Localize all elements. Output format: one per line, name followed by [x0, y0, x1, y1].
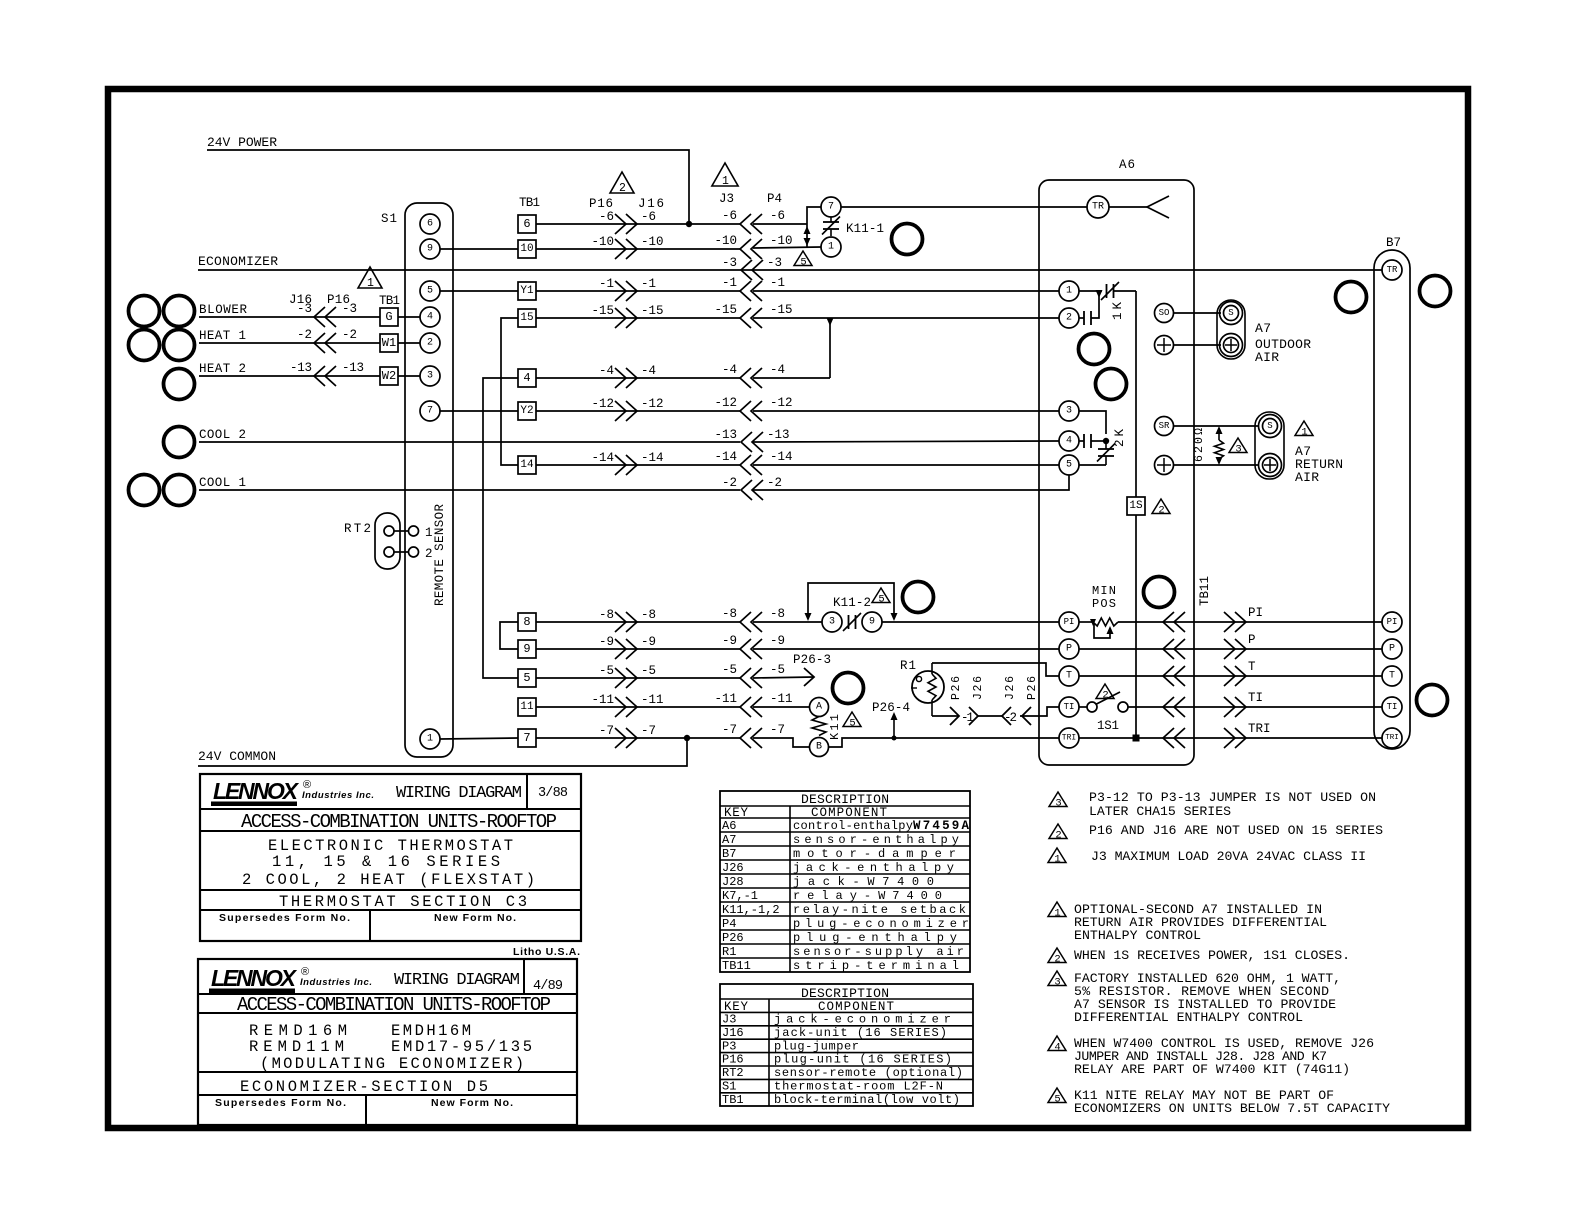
svg-text:-15: -15 — [770, 303, 793, 317]
svg-text:3: 3 — [1055, 798, 1061, 810]
svg-text:-5: -5 — [770, 663, 785, 677]
svg-text:P3: P3 — [722, 1039, 736, 1053]
terminal B7-TR — [1382, 260, 1402, 280]
svg-text:2: 2 — [1102, 690, 1108, 702]
svg-text:K11,-1,2: K11,-1,2 — [722, 903, 780, 917]
svg-text:-8: -8 — [599, 608, 614, 622]
connector J3-4/P4-4 chevron — [740, 368, 762, 388]
terminal TB1-5 — [518, 669, 536, 687]
svg-text:-5: -5 — [641, 664, 656, 678]
wire -2 to A6-5 drop — [753, 475, 1069, 490]
wire SO to A7 outdoor S — [1174, 312, 1222, 314]
damper actuator arrow — [1147, 196, 1169, 218]
wire TRI to TB11 — [1079, 737, 1163, 739]
svg-text:-5: -5 — [722, 663, 737, 677]
terminal TB1-W2 — [380, 367, 398, 385]
connector P26-3 arrow — [804, 668, 814, 686]
wire A6-3 to 2K — [1079, 411, 1106, 434]
terminal TB1-6 — [518, 215, 536, 233]
wire-nut circles HEAT 1 — [129, 330, 160, 361]
svg-text:-1: -1 — [722, 276, 737, 290]
contact K11-1 terminal 1 — [821, 237, 841, 257]
sensor A7 return outline — [1255, 412, 1284, 479]
note triangle 2 (1S1) — [1096, 684, 1114, 699]
wire -7 to K11 coil B — [753, 738, 810, 747]
RT2 pin 1 circle — [384, 526, 394, 536]
note triangle 4 — [1048, 1036, 1066, 1051]
svg-text:P26-3: P26-3 — [793, 653, 831, 667]
svg-text:ENTHALPY CONTROL: ENTHALPY CONTROL — [1074, 928, 1201, 943]
svg-text:A: A — [816, 702, 822, 713]
title block 2 row lines — [198, 993, 577, 995]
svg-text:1: 1 — [1301, 427, 1307, 439]
svg-text:-1: -1 — [599, 277, 614, 291]
svg-text:sensor-enthalpy: sensor-enthalpy — [793, 833, 959, 847]
svg-text:-13: -13 — [715, 428, 738, 442]
wire -9 to A6 P — [753, 648, 1059, 650]
svg-text:J16: J16 — [638, 197, 664, 211]
svg-text:4: 4 — [1066, 436, 1072, 447]
svg-text:-13: -13 — [767, 428, 790, 442]
terminal A6-3 — [1059, 401, 1079, 421]
relay coil K11 winding — [812, 717, 826, 736]
connector J16-3/P16-3 chevron — [314, 307, 336, 327]
sensor R1 element — [928, 674, 936, 700]
svg-text:COOL 2: COOL 2 — [199, 428, 246, 442]
svg-text:-15: -15 — [592, 304, 615, 318]
svg-text:ACCESS-COMBINATION UNITS-ROOFT: ACCESS-COMBINATION UNITS-ROOFTOP — [237, 994, 551, 1016]
svg-text:3: 3 — [1054, 977, 1060, 989]
wire TB1 to P16-5 — [536, 677, 740, 679]
svg-text:T: T — [1066, 671, 1072, 682]
terminal TB1-9 — [518, 640, 536, 658]
svg-text:B: B — [816, 742, 822, 753]
A7 return plus terminal — [1259, 454, 1282, 477]
svg-text:TI: TI — [1248, 691, 1263, 705]
potentiometer MIN POS — [1079, 621, 1093, 623]
svg-text:Supersedes Form No.: Supersedes Form No. — [215, 1097, 346, 1109]
svg-text:J3: J3 — [722, 1013, 736, 1027]
svg-text:-10: -10 — [715, 234, 738, 248]
wire TB1 to P16-10 — [536, 248, 740, 250]
svg-text:6: 6 — [523, 217, 530, 231]
svg-text:plug-unit (16 SERIES): plug-unit (16 SERIES) — [774, 1053, 952, 1067]
RT2 wire 2 — [394, 551, 409, 553]
sensor A7 outdoor outline — [1217, 300, 1245, 359]
svg-text:-15: -15 — [641, 304, 664, 318]
contact on A6-2 — [1079, 317, 1084, 319]
motor B7 outline — [1374, 250, 1410, 749]
note triangle 5 (K11 coil) — [843, 712, 861, 727]
junction arrow -15/-4 — [827, 318, 834, 326]
svg-text:thermostat-room L2F-N: thermostat-room L2F-N — [774, 1080, 943, 1094]
wire TB1 to P16-1 — [536, 290, 740, 292]
wire R1 top to A6 T — [932, 663, 1059, 676]
svg-text:5: 5 — [523, 671, 530, 685]
svg-text:-12: -12 — [770, 396, 793, 410]
svg-text:9: 9 — [427, 244, 433, 255]
control A6 outline — [1039, 180, 1194, 765]
grommet circle above TB11 chevrons — [1144, 577, 1175, 608]
svg-text:(MODULATING ECONOMIZER): (MODULATING ECONOMIZER) — [260, 1055, 524, 1073]
svg-text:24V POWER: 24V POWER — [207, 135, 277, 150]
grommet circle right of B7 bottom — [1417, 685, 1448, 716]
svg-text:R1: R1 — [722, 945, 736, 959]
connector J26-2 chevron pair — [1002, 707, 1031, 725]
wire TB1 to P16-14 — [536, 464, 740, 466]
terminal S1-5 — [420, 281, 440, 301]
wire A6-4 to junction — [1091, 440, 1106, 442]
wire -14 to A6-5 — [753, 464, 1059, 466]
svg-text:P16: P16 — [589, 197, 613, 211]
wire-nut circle COOL 2 — [164, 427, 195, 458]
terminal A6-SR — [1155, 417, 1174, 436]
wire TB1 to P16-4 — [536, 377, 740, 379]
wire ECONOMIZER / -3 row — [198, 269, 1382, 271]
terminal TB1-7 — [518, 729, 536, 747]
svg-text:S: S — [1267, 421, 1272, 431]
K11-1 common riser — [807, 207, 821, 248]
svg-text:P26: P26 — [1026, 676, 1039, 700]
terminal A6-PI — [1059, 612, 1079, 632]
svg-text:2 COOL, 2 HEAT (FLEXSTAT): 2 COOL, 2 HEAT (FLEXSTAT) — [242, 871, 535, 889]
note triangle 3b — [1048, 971, 1066, 986]
wire TB11 TRI segment — [1163, 737, 1248, 739]
connector J3-14/P4-14 chevron — [740, 455, 762, 475]
terminal TB1-11 — [518, 698, 536, 716]
svg-text:plug-jumper: plug-jumper — [774, 1039, 859, 1053]
svg-text:5: 5 — [1054, 1094, 1060, 1106]
contact 2K NC — [1105, 441, 1107, 449]
connector J3-8/P4-8 chevron — [740, 612, 762, 632]
svg-text:-11: -11 — [770, 692, 793, 706]
table 1 grid — [720, 805, 970, 807]
svg-text:14: 14 — [520, 459, 534, 471]
connector J3-1/P4-1 chevron — [740, 281, 762, 301]
wire S1-9 to TB1-10 — [440, 248, 518, 250]
terminal A6-P — [1059, 639, 1079, 659]
wire TB1 to P16-11 — [536, 706, 740, 708]
connector TB11 TRI left chevron — [1163, 728, 1185, 748]
wire -11 to K11 coil A — [753, 706, 809, 708]
connector P16-11/J16-11 chevron — [615, 697, 637, 717]
terminal A6-5 — [1059, 455, 1079, 475]
svg-text:-10: -10 — [592, 235, 615, 249]
svg-text:7: 7 — [828, 202, 834, 213]
svg-text:-8: -8 — [722, 607, 737, 621]
svg-text:HEAT 2: HEAT 2 — [199, 362, 246, 376]
terminal A6-plus-R — [1155, 456, 1174, 475]
svg-text:-8: -8 — [641, 608, 656, 622]
junction dot 2K — [1103, 438, 1109, 444]
svg-text:W1: W1 — [382, 336, 396, 350]
svg-text:THERMOSTAT SECTION C3: THERMOSTAT SECTION C3 — [279, 893, 527, 911]
svg-text:HEAT 1: HEAT 1 — [199, 329, 246, 343]
svg-text:COMPONENT: COMPONENT — [811, 806, 887, 820]
wire PI to B7 — [1248, 621, 1382, 623]
svg-text:K7,-1: K7,-1 — [722, 889, 758, 903]
svg-text:-6: -6 — [722, 209, 737, 223]
connector P16-14/J16-14 chevron — [615, 455, 637, 475]
svg-text:TI: TI — [1387, 702, 1398, 712]
svg-text:1: 1 — [722, 175, 729, 188]
RT2 pin 2 circle — [384, 547, 394, 557]
connector P16-5/J16-5 chevron — [615, 668, 637, 688]
wire -10 to K11-1 NC — [753, 247, 821, 248]
svg-text:TB11: TB11 — [1198, 576, 1212, 606]
A7 outdoor plus terminal — [1220, 334, 1243, 357]
svg-text:-3: -3 — [297, 302, 312, 316]
svg-text:-8: -8 — [770, 607, 785, 621]
wire 2K to A6-5 — [1079, 464, 1106, 466]
svg-text:5: 5 — [1066, 460, 1072, 471]
wire TB1-W2 to S1-3 — [398, 375, 420, 377]
terminal TB1-10 — [518, 240, 536, 258]
terminal S1-2 — [420, 333, 440, 353]
connector J3-11/P4-11 chevron — [740, 697, 762, 717]
svg-text:-7: -7 — [599, 724, 614, 738]
svg-text:MIN: MIN — [1092, 584, 1116, 598]
svg-text:1: 1 — [828, 242, 834, 253]
note triangle 2 (text) — [1049, 824, 1067, 839]
svg-text:New Form No.: New Form No. — [434, 912, 516, 924]
svg-text:3/88: 3/88 — [538, 786, 568, 801]
svg-text:J3 MAXIMUM LOAD 20VA 24VAC CLA: J3 MAXIMUM LOAD 20VA 24VAC CLASS II — [1091, 849, 1366, 864]
sensor R1 temp symbol — [916, 676, 921, 681]
svg-text:TRI: TRI — [1248, 722, 1271, 736]
svg-text:3: 3 — [829, 617, 835, 628]
connector P16-8/J16-8 chevron — [615, 612, 637, 632]
sensor RT2 outline — [375, 513, 400, 569]
potentiometer wiper — [1094, 624, 1110, 638]
connector TB11 T left chevron — [1163, 666, 1185, 686]
wire J26-2 to A6 TI — [1020, 707, 1059, 716]
wire TB1 to P16-9 — [536, 648, 740, 650]
wire-nut circle HEAT 2 — [164, 369, 195, 400]
svg-text:A7: A7 — [1255, 321, 1271, 336]
wire K11-1 to A6 TR — [841, 206, 1087, 208]
wire 1S riser lower — [1135, 515, 1137, 738]
svg-text:-12: -12 — [641, 397, 664, 411]
table 2 outline — [720, 984, 973, 1106]
wire -6 to K11-1 common — [753, 223, 807, 225]
svg-text:-2: -2 — [767, 476, 782, 490]
connector TB11 P right chevron — [1224, 639, 1246, 659]
svg-text:-9: -9 — [599, 635, 614, 649]
note triangle 1b — [1048, 902, 1066, 917]
svg-text:LENNOX: LENNOX — [211, 965, 298, 991]
connector P16-6/J16-6 chevron — [615, 214, 637, 234]
wire TB1-G to S1-4 — [398, 316, 420, 318]
wire TRI to B7 — [1248, 737, 1382, 739]
svg-text:P16 AND J16 ARE NOT USED ON 15: P16 AND J16 ARE NOT USED ON 15 SERIES — [1089, 823, 1383, 838]
table 1 outline — [720, 791, 970, 972]
svg-text:P26: P26 — [950, 676, 963, 700]
svg-text:B7: B7 — [722, 847, 736, 861]
wire-nut circles BLOWER — [129, 296, 160, 327]
svg-text:ECONOMIZERS ON UNITS BELOW 7.5: ECONOMIZERS ON UNITS BELOW 7.5T CAPACITY — [1074, 1101, 1390, 1116]
wire -12 to A6-3 — [753, 410, 1059, 412]
svg-text:TB1: TB1 — [519, 196, 540, 210]
svg-text:G: G — [385, 310, 392, 324]
svg-text:-2: -2 — [1004, 711, 1017, 725]
connector P26-4 arrow — [893, 716, 895, 738]
contact 1K NC — [1106, 284, 1108, 298]
note triangle 1 (J16/P16) — [358, 267, 382, 288]
svg-text:5: 5 — [427, 286, 433, 297]
svg-text:-14: -14 — [641, 451, 664, 465]
svg-text:RT2: RT2 — [722, 1066, 744, 1080]
svg-text:-3: -3 — [342, 302, 357, 316]
A7 outdoor S terminal — [1220, 302, 1243, 325]
svg-text:4: 4 — [523, 371, 530, 385]
terminal A6-SO — [1155, 304, 1174, 323]
wire TB1-W1 to S1-2 — [398, 342, 420, 344]
relay coil K11 terminal A — [810, 698, 829, 717]
grommet circle near K11-1 — [892, 224, 923, 255]
wire TB11 TI segment — [1163, 706, 1248, 708]
connector TB11 T right chevron — [1224, 666, 1246, 686]
svg-text:AIR: AIR — [1255, 350, 1279, 365]
svg-text:P4: P4 — [722, 917, 736, 931]
terminal S1-3 — [420, 366, 440, 386]
terminal S1-1 — [420, 729, 440, 749]
svg-text:A6: A6 — [1119, 158, 1135, 172]
svg-text:Supersedes Form No.: Supersedes Form No. — [219, 912, 350, 924]
svg-text:TB1: TB1 — [722, 1093, 744, 1107]
wire TI to B7 — [1248, 706, 1382, 708]
svg-text:-11: -11 — [715, 692, 738, 706]
svg-text:DESCRIPTION: DESCRIPTION — [801, 792, 889, 807]
svg-text:-12: -12 — [592, 397, 615, 411]
svg-text:15: 15 — [520, 312, 533, 324]
svg-text:4/89: 4/89 — [533, 979, 563, 994]
svg-text:8: 8 — [523, 615, 530, 629]
svg-text:S1: S1 — [722, 1080, 736, 1094]
svg-text:-9: -9 — [641, 635, 656, 649]
note triangle 2b — [1048, 948, 1066, 963]
terminal TB1-14 — [518, 456, 536, 474]
svg-text:K11-2: K11-2 — [833, 596, 871, 610]
K11-1 travel arrow up — [804, 226, 811, 234]
svg-text:-3: -3 — [767, 256, 782, 270]
terminal B7-TI — [1382, 697, 1402, 717]
svg-text:sensor-supply air: sensor-supply air — [793, 945, 964, 959]
wire A6-1 to 1K — [1079, 290, 1102, 292]
wire -4 to junction — [753, 377, 830, 379]
wire 1S riser — [1135, 291, 1137, 497]
svg-text:J3: J3 — [719, 192, 734, 206]
terminal A6-T — [1059, 666, 1079, 686]
grommet circle A6 b — [1096, 369, 1127, 400]
junction arrow on A6-1 wire — [1096, 290, 1103, 298]
connector TB11 P left chevron — [1163, 639, 1185, 659]
contact K11-1 NC symbol — [830, 217, 832, 222]
sensor R1 outline — [912, 671, 944, 703]
wire -8 to K11-2 — [753, 621, 822, 623]
connector J3-9/P4-9 chevron — [740, 639, 762, 659]
svg-text:-6: -6 — [599, 210, 614, 224]
svg-text:P4: P4 — [767, 192, 782, 206]
switch 1S1 — [1079, 706, 1087, 708]
wire HEAT 2 — [199, 375, 380, 377]
svg-text:-12: -12 — [715, 396, 738, 410]
svg-text:-13: -13 — [342, 361, 364, 375]
connector J3-2/P4-2 chevron — [741, 480, 763, 500]
wire BLOWER — [199, 316, 380, 318]
note triangle 5 (K11-2) — [872, 588, 890, 603]
terminal A6-4 — [1059, 431, 1079, 451]
wire P to TB11 — [1079, 648, 1163, 650]
svg-text:2: 2 — [1054, 954, 1060, 966]
connector -2 chevron — [314, 333, 336, 353]
wire COOL 1 / -2 row — [199, 489, 740, 491]
junction square 1S/TRI — [1133, 735, 1140, 742]
connector TB11 TRI right chevron — [1224, 728, 1246, 748]
wire S1-1 to TB1-7 — [440, 738, 518, 739]
connector J3-3/P4-3 chevron — [741, 260, 763, 280]
note triangle 1 (A7 return) — [1295, 421, 1313, 436]
svg-text:3: 3 — [1066, 406, 1072, 417]
terminal A6-1 — [1059, 281, 1079, 301]
svg-text:9: 9 — [523, 642, 530, 656]
table 2 grid — [720, 998, 973, 1000]
svg-text:K11-1: K11-1 — [846, 222, 884, 236]
wire TB11 P segment — [1163, 648, 1248, 650]
contact K11-1 terminal 7 — [821, 197, 841, 217]
wire TB1 to P16-8 — [536, 621, 740, 623]
svg-text:-1: -1 — [641, 277, 656, 291]
svg-text:-9: -9 — [722, 634, 737, 648]
connector -13 chevron — [314, 366, 336, 386]
connector P16-4/J16-4 chevron — [615, 368, 637, 388]
svg-text:-10: -10 — [641, 235, 664, 249]
svg-text:W2: W2 — [382, 369, 396, 383]
svg-text:-2: -2 — [722, 476, 737, 490]
jumper TB1-4 to TB1-5 — [483, 378, 518, 678]
title block 1 outline — [200, 774, 581, 941]
svg-text:A6: A6 — [722, 819, 736, 833]
svg-text:T: T — [1248, 660, 1256, 674]
svg-text:S1: S1 — [381, 212, 397, 226]
note triangle 2 (P16/J16) — [610, 172, 634, 193]
grommet circle A6 a — [1079, 334, 1110, 365]
svg-text:11: 11 — [520, 701, 534, 713]
svg-text:Industries Inc.: Industries Inc. — [300, 977, 372, 988]
svg-text:TR: TR — [1092, 202, 1104, 213]
svg-text:DIFFERENTIAL ENTHALPY CONTROL: DIFFERENTIAL ENTHALPY CONTROL — [1074, 1010, 1303, 1025]
junction dot 24V COMMON to -7 — [684, 735, 690, 741]
svg-text:TB11: TB11 — [722, 959, 751, 973]
terminal A6-TRI — [1059, 728, 1079, 748]
wire K11-2 to A6 PI — [882, 621, 1059, 623]
wire A6-2 contact up — [1091, 293, 1099, 318]
svg-text:REMOTE SENSOR: REMOTE SENSOR — [433, 504, 447, 606]
note triangle 1 (text) — [1048, 848, 1066, 863]
svg-text:J26: J26 — [972, 676, 985, 700]
svg-text:-6: -6 — [641, 210, 656, 224]
connector J3-12/P4-12 chevron — [740, 401, 762, 421]
connector P16-9/J16-9 chevron — [615, 639, 637, 659]
svg-text:ECONOMIZER-SECTION D5: ECONOMIZER-SECTION D5 — [240, 1078, 488, 1096]
terminal TB1-15 — [518, 309, 536, 327]
wire -1 to A6-1 — [753, 290, 1059, 292]
svg-text:TR: TR — [1387, 265, 1398, 275]
wire S1-7 to TB1-Y2 — [440, 410, 518, 412]
svg-text:4: 4 — [427, 312, 433, 323]
connector P16-10/J16-10 chevron — [615, 239, 637, 259]
svg-text:SR: SR — [1159, 421, 1170, 431]
